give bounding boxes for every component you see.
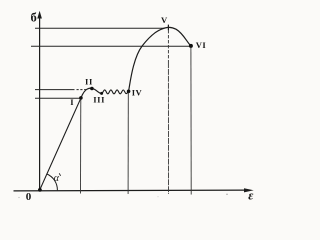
curve II to III (92, 88, 102, 93)
node point IV (127, 90, 131, 94)
y-axis (sigma axis) (39, 15, 41, 191)
node point I (79, 96, 83, 100)
vertical drop line from IV (127, 93, 129, 195)
vertical dashed drop line from V (167, 30, 169, 62)
x-axis arrowhead (244, 188, 254, 192)
svg-text:II: II (85, 76, 93, 86)
hardening curve IV to V to VI (129, 27, 191, 91)
x-axis (epsilon axis) (14, 189, 247, 192)
node point VI (189, 44, 193, 48)
svg-text:б: б (31, 11, 37, 25)
svg-text:V: V (161, 15, 168, 25)
svg-text:IV: IV (132, 87, 143, 97)
horizontal level line at V (35, 27, 165, 29)
svg-text:0: 0 (26, 191, 32, 203)
y-axis arrowhead (37, 11, 42, 19)
origin node (38, 188, 42, 192)
tick mark at peak V (167, 25, 169, 31)
node point II (90, 87, 94, 91)
scan speckles (226, 194, 227, 195)
horizontal dashed level line at II (35, 89, 75, 91)
angle arc alpha (47, 174, 57, 190)
horizontal level line at VI (31, 45, 191, 47)
yield plateau squiggle III to IV (102, 90, 129, 94)
svg-text:III: III (93, 94, 105, 104)
elastic straight line 0 to I (40, 98, 81, 190)
node point III (100, 92, 103, 95)
svg-text:α: α (54, 173, 60, 184)
vertical drop line from I (80, 99, 82, 194)
svg-text:ε: ε (248, 188, 254, 202)
curve I to II (81, 88, 92, 98)
horizontal level line at I (35, 97, 80, 99)
svg-text:VI: VI (196, 40, 207, 50)
vertical drop line from VI (190, 48, 192, 195)
